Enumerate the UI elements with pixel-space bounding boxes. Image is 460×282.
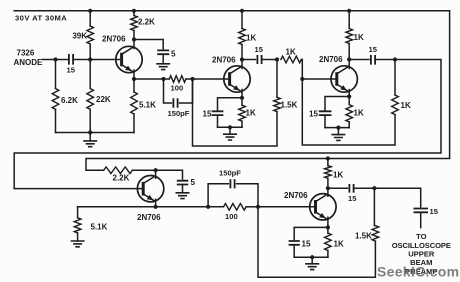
svg-text:100: 100 xyxy=(171,84,184,93)
wire C11 to ground bus xyxy=(293,245,295,257)
wire Q3 collector to C6 xyxy=(349,59,369,61)
wire R2 to ground bus xyxy=(55,109,57,132)
label 1.5K for R18 xyxy=(355,232,372,241)
svg-text:1.5K: 1.5K xyxy=(355,232,372,241)
label 100 for R16 xyxy=(225,212,238,221)
svg-text:100: 100 xyxy=(225,212,238,221)
wire Q2 emitter down to R10 xyxy=(241,98,243,105)
label PREAMP xyxy=(405,267,438,276)
svg-text:1K: 1K xyxy=(334,240,344,249)
node Q1 emitter junction xyxy=(132,77,136,81)
svg-text:6.2K: 6.2K xyxy=(61,96,78,105)
svg-text:15: 15 xyxy=(302,240,311,249)
wire Q2 emitter xyxy=(241,90,243,98)
resistor R1 39K xyxy=(87,26,94,44)
svg-text:1K: 1K xyxy=(333,171,343,180)
label 1K for R13 xyxy=(354,109,364,118)
svg-text:ANODE: ANODE xyxy=(14,58,44,67)
label 15 for C10 xyxy=(348,194,357,203)
label TO xyxy=(416,232,427,241)
node input junction at 6.2K tap xyxy=(53,57,57,61)
ground G4 under Q3 emitter xyxy=(331,128,345,141)
wire rail to R11 xyxy=(348,11,350,29)
svg-text:2N706: 2N706 xyxy=(102,35,126,44)
wire N4 down to R18 xyxy=(373,188,375,226)
resistor R5 5.1K (Q1 emitter) xyxy=(131,92,138,114)
transistor Q2 2N706 xyxy=(224,66,250,92)
label 2N706 for Q5 xyxy=(284,191,308,200)
wire Q1 collector node to C2 xyxy=(134,40,163,49)
svg-text:SeekIC.com: SeekIC.com xyxy=(377,264,459,280)
wire base node down to R3 xyxy=(89,60,91,89)
svg-text:7326: 7326 xyxy=(17,49,35,58)
node Q3 emitter ground junction xyxy=(336,126,340,130)
label 15 for C6 xyxy=(369,45,378,54)
wire R11 to Q3 collector xyxy=(348,44,350,60)
ground G3 under Q2 emitter xyxy=(223,127,237,140)
svg-text:5: 5 xyxy=(191,178,196,187)
wire R7 to Q2 collector xyxy=(241,45,243,60)
node N2 junction xyxy=(275,57,279,61)
label 15 for C5 xyxy=(203,110,212,119)
node Q4 collector junction xyxy=(154,168,158,172)
wire Q4 emitter line to 5.1K and A2 xyxy=(78,206,209,208)
wire R17 to Q5 collector node xyxy=(327,178,329,188)
resistor R10 1K (Q2 emitter) xyxy=(239,105,246,121)
wire rail to R7 xyxy=(241,11,243,29)
wire Q1 emitter xyxy=(133,70,135,79)
svg-text:150pF: 150pF xyxy=(168,109,190,118)
capacitor C11 15 (Q5 emitter bypass) xyxy=(289,241,300,245)
wire Q3 emitter xyxy=(348,90,350,97)
capacitor C2 5 (collector bypass) xyxy=(157,50,169,54)
wire Q5 emitter ground bus xyxy=(294,256,328,258)
resistor R12 1K (feedback) xyxy=(392,95,399,115)
transistor Q5 2N706 xyxy=(310,194,336,220)
node Q2 collector junction xyxy=(240,57,244,61)
svg-text:1K: 1K xyxy=(401,101,411,110)
wire C5 to ground bus xyxy=(217,115,219,127)
ground G6 under R15 xyxy=(71,241,85,247)
label 2N706 for Q1 xyxy=(102,35,126,44)
ground G2 under C2 xyxy=(156,64,170,70)
capacitor C1 15 (input coupling) xyxy=(69,54,73,65)
capacitor C9 150pF xyxy=(230,179,234,188)
wire bias ground bus xyxy=(56,132,135,134)
node Q2 emitter junction xyxy=(240,96,244,100)
wire Q1 emitter to node A1 xyxy=(134,78,164,80)
resistor R17 1K (Q5 collector load) xyxy=(325,166,332,179)
node Q4 emitter junction xyxy=(154,205,158,209)
wire R15 to ground xyxy=(77,233,79,241)
svg-text:150pF: 150pF xyxy=(219,169,241,178)
svg-text:15: 15 xyxy=(369,45,378,54)
wire C12 to oscilloscope xyxy=(420,212,422,227)
label 5 for C8 xyxy=(191,178,196,187)
wire N2 down to R9 xyxy=(276,60,278,98)
capacitor C3 150pF bridge left leg xyxy=(164,79,172,103)
svg-text:15: 15 xyxy=(348,194,357,203)
svg-text:15: 15 xyxy=(67,66,76,75)
wire C1 to base node xyxy=(73,59,121,61)
label 2N706 for Q2 xyxy=(212,56,236,65)
wire 30V supply rail (top) with right-edge drop to lower supply bus xyxy=(14,11,449,170)
wire R10 to ground bus xyxy=(241,121,243,127)
resistor R6 100 xyxy=(169,76,186,83)
resistor R11 1K (Q3 collector load) xyxy=(346,29,353,44)
label 1K for R12 xyxy=(401,101,411,110)
transistor Q4 2N706 xyxy=(137,176,163,202)
svg-text:5.1K: 5.1K xyxy=(139,101,156,110)
wire C6 to node N3 xyxy=(375,59,395,61)
wire input from 7326 anode xyxy=(43,59,69,61)
ground G7 under Q5 emitter xyxy=(305,257,319,269)
wire Q2 emitter ground bus xyxy=(218,126,243,128)
wire R14 to Q4 collector node and C8 xyxy=(132,170,182,179)
wire input node down to R2 xyxy=(55,60,57,89)
resistor R18 1.5K (feedback) xyxy=(372,226,379,241)
node Q2 emitter ground junction xyxy=(228,125,232,129)
wire C10 to node N4 xyxy=(354,187,375,189)
svg-text:1K: 1K xyxy=(354,33,364,42)
resistor R16 100 xyxy=(224,204,247,211)
resistor R19 1K (Q5 emitter) xyxy=(325,233,332,250)
wire Q2 collector xyxy=(241,60,243,69)
label 150pF for C3 xyxy=(168,109,190,118)
wire R8 tail corner to Q3 base xyxy=(301,60,336,80)
capacitor C6 15 (Q3 output coupling) xyxy=(371,55,375,65)
svg-text:1.5K: 1.5K xyxy=(281,101,298,110)
wire N4 to output corner and down to C12 xyxy=(374,188,420,207)
wire Q1 collector xyxy=(133,40,135,49)
label 100 for R6 xyxy=(171,84,184,93)
wire R5 to ground bus xyxy=(133,114,135,133)
resistor R9 1.5K (feedback) xyxy=(274,97,281,111)
wire R1 to base node xyxy=(89,44,91,60)
svg-text:15: 15 xyxy=(309,110,318,119)
svg-text:15: 15 xyxy=(255,45,264,54)
svg-text:2N706: 2N706 xyxy=(137,213,161,222)
svg-text:2N706: 2N706 xyxy=(212,56,236,65)
label 2N706 for Q3 xyxy=(319,55,343,64)
wire Q5 emitter to C11 xyxy=(294,227,328,239)
label 15 for C1 xyxy=(67,66,76,75)
node bias ground junction xyxy=(88,130,92,134)
node rail junction for R7 xyxy=(240,9,244,13)
wire B2 to Q5 base xyxy=(258,206,315,208)
node Q5 collector junction xyxy=(326,186,330,190)
node Q1 base junction xyxy=(88,57,92,61)
wire C8 to ground xyxy=(182,185,184,193)
svg-text:39K: 39K xyxy=(72,32,87,41)
capacitor C7 15 (Q3 emitter bypass) xyxy=(319,111,332,115)
svg-text:1K: 1K xyxy=(246,34,256,43)
node Q3 emitter junction xyxy=(347,94,351,98)
wire supply to R17 xyxy=(327,159,329,166)
node A1 junction xyxy=(161,77,165,81)
capacitor C4 15 (Q2 output coupling) xyxy=(257,55,261,64)
svg-text:15: 15 xyxy=(203,110,212,119)
node B1 junction (Q2 base) xyxy=(190,77,194,81)
wire Q4 collector xyxy=(155,170,157,178)
resistor R14 2.2K (Q4 collector load) xyxy=(104,167,133,174)
wire down to R15 xyxy=(77,207,79,218)
label 2.2K for R14 xyxy=(113,174,130,183)
wire Q5 emitter down to R19 xyxy=(327,227,329,233)
resistor R2 6.2K xyxy=(52,89,59,110)
wire R4 to Q1 collector node xyxy=(133,31,135,40)
svg-text:5: 5 xyxy=(171,50,176,59)
wire B1 to Q2 base xyxy=(193,78,230,80)
resistor R13 1K (Q3 emitter) xyxy=(346,105,353,122)
label 39K xyxy=(72,32,87,41)
wire Q1 emitter down to R5 xyxy=(133,79,135,92)
wire Q3 emitter to C7 xyxy=(325,97,349,110)
svg-text:1K: 1K xyxy=(246,109,256,118)
label 15 for C11 xyxy=(302,240,311,249)
wire Q4 emitter xyxy=(155,199,157,207)
wire C9 right leg to B2 xyxy=(237,184,258,207)
capacitor C3 150pF xyxy=(173,98,177,108)
node rail junction for R11 xyxy=(347,9,351,13)
label 150pF for C9 xyxy=(219,169,241,178)
label ANODE input xyxy=(14,58,44,67)
label 2N706 for Q4 xyxy=(137,213,161,222)
node Q3 base junction xyxy=(300,77,304,81)
svg-text:2.2K: 2.2K xyxy=(113,174,130,183)
svg-text:30V AT 30MA: 30V AT 30MA xyxy=(15,14,67,23)
label 5 for C2 xyxy=(171,50,176,59)
wire R12 bracket back to Q3 base xyxy=(302,79,395,145)
wire signal bus: N3 right, down right edge, across to left edge, down to Q4 base xyxy=(14,60,441,189)
node Q5 emitter ground junction xyxy=(310,255,314,259)
svg-text:5.1K: 5.1K xyxy=(91,223,108,232)
watermark SeekIC.com xyxy=(377,264,459,280)
svg-text:15: 15 xyxy=(430,207,439,216)
wire Q3 emitter down to R13 xyxy=(348,97,350,105)
label UPPER xyxy=(408,250,435,259)
wire Q2 emitter to C5 xyxy=(218,98,243,110)
node supply tap for R17 xyxy=(326,156,330,160)
label 7326 input xyxy=(17,49,35,58)
capacitor C10 15 (Q5 output coupling) xyxy=(349,184,353,193)
node Q1 collector junction xyxy=(132,37,136,41)
capacitor C8 5 (Q4 collector bypass) xyxy=(177,181,188,185)
resistor R8 1K (series to Q3 base) xyxy=(281,56,302,63)
resistor R3 22K xyxy=(87,89,94,110)
wire A1 to R6 xyxy=(164,78,170,80)
svg-text:2.2K: 2.2K xyxy=(138,18,155,27)
wire C3 right leg to B1 xyxy=(180,79,193,103)
node rail junction for R4 xyxy=(132,9,136,13)
svg-text:22K: 22K xyxy=(96,95,111,104)
wire Q3 collector xyxy=(348,60,350,69)
svg-text:2N706: 2N706 xyxy=(319,55,343,64)
wire rail to R4 xyxy=(133,11,135,16)
wire C2 to ground xyxy=(162,54,164,64)
wire R19 to ground bus xyxy=(327,251,329,258)
node Q3 collector junction xyxy=(347,57,351,61)
label 5.1K for R15 xyxy=(91,223,108,232)
svg-text:1K: 1K xyxy=(354,109,364,118)
label 15 for C12 xyxy=(430,207,439,216)
label 1K for R17 xyxy=(333,171,343,180)
label 1K for R8 xyxy=(286,48,296,57)
label 5.1K for R5 xyxy=(139,101,156,110)
wire B2 down to bottom bracket to R18 xyxy=(258,207,375,277)
node N4 output junction xyxy=(372,186,376,190)
svg-text:TO: TO xyxy=(416,232,427,241)
wire R3 to ground bus xyxy=(89,109,91,132)
svg-text:1K: 1K xyxy=(286,48,296,57)
transistor Q1 2N706 xyxy=(116,46,142,72)
label 30V AT 30MA xyxy=(15,14,67,23)
wire C7 to ground bus xyxy=(324,115,326,128)
wire Q5 emitter xyxy=(327,217,329,227)
transistor Q3 2N706 xyxy=(331,66,357,92)
svg-text:2N706: 2N706 xyxy=(284,191,308,200)
capacitor C5 15 (Q2 emitter bypass) xyxy=(212,111,224,115)
wire Q2 collector to C4 xyxy=(242,59,255,61)
capacitor C9 150pF bridge left leg xyxy=(208,184,228,207)
wire Q3 emitter ground bus xyxy=(325,127,349,129)
wire N3 down to R12 xyxy=(394,60,396,96)
label 1K for R19 xyxy=(334,240,344,249)
label 22K xyxy=(96,95,111,104)
node A2 junction xyxy=(206,205,210,209)
label 15 for C7 xyxy=(309,110,318,119)
wire A2 to R16 xyxy=(208,206,223,208)
wire R13 to ground bus xyxy=(348,122,350,128)
label 15 for C4 xyxy=(255,45,264,54)
label 1.5K for R9 xyxy=(281,101,298,110)
label OSCILLOSCOPE xyxy=(392,241,451,250)
resistor R15 5.1K (Q4 emitter) xyxy=(74,218,81,233)
wire Q5 collector xyxy=(327,188,329,196)
label 1K for R11 xyxy=(354,33,364,42)
node B2 junction (Q5 base) xyxy=(256,205,260,209)
label 1K for R10 xyxy=(246,109,256,118)
node N3 output junction xyxy=(393,57,397,61)
wire R9 to bracket back to B1 xyxy=(193,79,278,146)
wire rail to R1 xyxy=(89,11,91,26)
resistor R4 2.2K (Q1 collector load) xyxy=(131,16,138,31)
ground G1 bias network xyxy=(83,133,97,147)
label 6.2K xyxy=(61,96,78,105)
label BEAM xyxy=(410,258,432,267)
label 1K for R7 xyxy=(246,34,256,43)
wire C4 to node N2 xyxy=(262,59,277,61)
resistor R7 1K (Q2 collector load) xyxy=(239,29,246,45)
node rail junction for R1 xyxy=(88,9,92,13)
wire R16 to node B2 xyxy=(246,206,258,208)
wire R6 to node B1 xyxy=(186,78,193,80)
node Q5 emitter junction xyxy=(326,225,330,229)
wire Q5 collector to C10 xyxy=(328,187,348,189)
capacitor C12 15 (output coupling) xyxy=(414,209,429,213)
ground G5 under C8 xyxy=(176,193,190,199)
label 2.2K for R4 xyxy=(138,18,155,27)
